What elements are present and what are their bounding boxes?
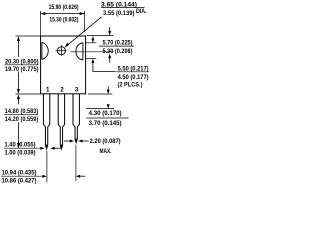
svg-text:4.50 (0.177): 4.50 (0.177) [118,74,149,81]
dimension: package width 15.90/15.30 [39,11,41,36]
svg-text:MAX.: MAX. [100,148,112,155]
svg-text:14.80 (0.583): 14.80 (0.583) [5,108,39,115]
svg-text:5.70 (0.225): 5.70 (0.225) [103,39,133,46]
svg-text:1: 1 [46,87,50,94]
dimension: 4.30/3.70 [88,93,112,95]
mounting hole [57,47,65,55]
left side notch [42,43,48,60]
body outline (front view) [41,36,86,94]
svg-text:3.70 (0.145): 3.70 (0.145) [89,120,122,127]
svg-text:(2 PLCS.): (2 PLCS.) [118,82,143,89]
svg-text:19.70 (0.775): 19.70 (0.775) [5,66,39,73]
dimension: notch height 5.50/4.50 (2 PLCS) [86,42,96,44]
svg-text:1.00 (0.039): 1.00 (0.039) [5,149,36,156]
dimension: hole position 5.70/5.30 [87,35,114,37]
dimension: lead width 2.20 MAX [64,140,70,142]
svg-text:10.94 (0.435): 10.94 (0.435) [2,170,37,177]
svg-text:15.30 (0.602): 15.30 (0.602) [49,17,78,24]
dimension: lead length 14.80/14.20 [17,94,20,99]
svg-text:DIA.: DIA. [136,8,147,15]
svg-text:10.86 (0.427): 10.86 (0.427) [2,177,37,184]
right side notch [76,43,83,60]
svg-text:5.30 (0.208): 5.30 (0.208) [103,48,133,55]
svg-text:1.40 (0.055): 1.40 (0.055) [5,141,36,148]
dimension: body height 20.30/19.70 [16,35,41,37]
lead 2 [58,94,64,149]
svg-text:2: 2 [60,87,64,94]
lead 3 [73,94,79,143]
svg-text:14.20 (0.559): 14.20 (0.559) [5,116,39,123]
lead 1 [43,94,49,149]
svg-text:2.20 (0.087): 2.20 (0.087) [90,138,121,145]
svg-text:3: 3 [75,87,79,94]
svg-text:4.30 (0.170): 4.30 (0.170) [89,110,122,117]
svg-text:20.30 (0.800): 20.30 (0.800) [5,58,39,65]
svg-text:5.50 (0.217): 5.50 (0.217) [118,65,149,72]
svg-text:15.90 (0.626): 15.90 (0.626) [49,4,79,11]
dimension: lead span 10.94/10.86 [46,151,48,183]
svg-text:3.55 (0.139): 3.55 (0.139) [103,10,135,17]
